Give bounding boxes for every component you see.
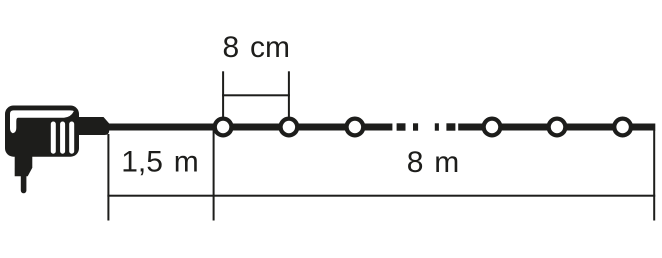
plug vent stripe 3 [69, 122, 74, 154]
plug body [5, 106, 79, 157]
divider line left (start of string) [107, 134, 109, 221]
svg-text:8 m: 8 m [407, 146, 460, 179]
wire dash 4 [446, 123, 455, 130]
wire dash 3 [435, 123, 439, 130]
LED bulb 6 [614, 119, 631, 136]
divider line right (end of string) [653, 130, 655, 221]
8cm dimension tick right [288, 71, 290, 117]
plug vent stripe 2 [60, 122, 65, 154]
wire segment left [95, 124, 392, 131]
LED bulb 5 [549, 119, 566, 136]
wire segment right [458, 124, 655, 131]
svg-text:8 cm: 8 cm [223, 31, 291, 64]
8cm dimension tick left [222, 71, 224, 117]
divider line middle (first bulb) [213, 130, 215, 221]
cable stub [76, 117, 109, 135]
LED bulb 1 [215, 119, 232, 136]
plug prong block [15, 150, 33, 176]
plug vent stripe 1 [51, 122, 56, 154]
svg-text:1,5 m: 1,5 m [121, 146, 199, 179]
LED bulb 2 [281, 119, 298, 136]
LED bulb 4 [484, 119, 501, 136]
8cm dimension connector [222, 94, 290, 96]
dimension baseline [107, 195, 655, 197]
plug pin [21, 175, 27, 193]
LED bulb 3 [347, 119, 364, 136]
wire dash 2 [413, 123, 418, 130]
plug body highlight (white inner band) [10, 110, 74, 133]
wire dash 1 [397, 123, 406, 130]
